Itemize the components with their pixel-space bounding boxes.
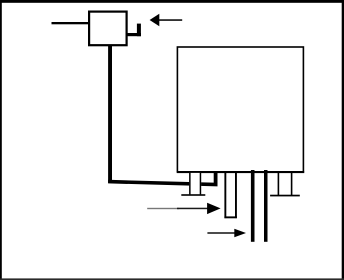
arrow A1 (middle, pointing right) shaft faded part: [147, 208, 179, 209]
arrow A1 head: [207, 203, 221, 214]
lead pin P2 bottom: [224, 216, 237, 218]
arrow A2 (bottom, pointing right) shaft: [207, 232, 235, 233]
border frame left: [0, 0, 2, 280]
lead-in line (left of box): [52, 22, 89, 24]
lead pin P1 (left, with foot) white infill over wire: [189, 173, 201, 194]
solder bar B1: [251, 170, 255, 242]
arrow (top, pointing left) head: [150, 14, 160, 26]
wire vertical segment (from box down): [108, 46, 112, 183]
lead pin P3 (right) left line: [278, 171, 280, 195]
arrow A2 head: [234, 229, 246, 237]
lead pin P3 foot: [270, 195, 300, 197]
border frame bottom: [0, 278, 344, 280]
wire riser into package: [214, 171, 218, 185]
lead pin P2 (tall) left line: [224, 173, 226, 219]
lead pin P1 right line: [200, 173, 202, 195]
L-bracket terminal (right of box) horizontal: [127, 33, 141, 36]
lead pin P1 left line: [189, 173, 191, 195]
border frame right: [342, 0, 344, 280]
L-bracket terminal vertical: [137, 24, 141, 37]
component box (top left): [89, 12, 127, 46]
lead pin P3 right line: [291, 171, 293, 195]
arrow A1 shaft dark part: [177, 208, 208, 210]
lead pin P2 right line: [235, 173, 237, 219]
wire horizontal segment (sloped, to package): [108, 180, 217, 187]
package body U1: [177, 47, 303, 172]
border frame top: [0, 0, 344, 3]
solder bar B2: [264, 170, 268, 242]
lead pin P1 foot: [181, 194, 205, 196]
arrow (top) shaft: [159, 19, 182, 21]
package bottom edge (thicker): [177, 171, 304, 173]
